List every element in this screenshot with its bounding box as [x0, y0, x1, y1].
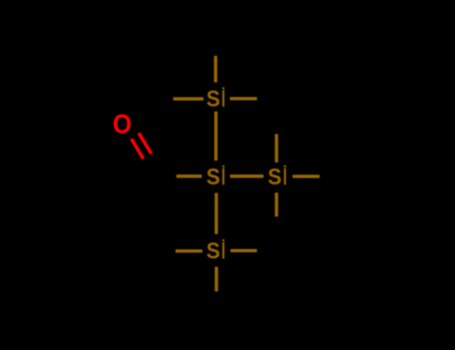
svg-text:S: S — [206, 238, 220, 264]
bond Si1 methyl right — [230, 97, 257, 100]
bond Si2-Si4 — [215, 193, 218, 234]
bond Si1-Si2 — [214, 112, 217, 161]
bond Si2-Si3 — [230, 175, 264, 178]
bond Si3 methyl up — [275, 134, 278, 163]
bond Si2 to acyl carbon — [176, 175, 201, 178]
atom Si1 (top trimethylsilyl) — [206, 86, 224, 112]
atom Si3 (right trimethylsilyl) — [268, 164, 286, 190]
bond Si3 methyl right — [293, 175, 320, 178]
bond C=O double bond line 2 — [139, 133, 152, 154]
atom Si4 (bottom trimethylsilyl) — [206, 238, 224, 264]
svg-text:S: S — [206, 86, 220, 112]
bond C=O double bond line 1 — [131, 139, 143, 159]
bond Si4 methyl down — [215, 267, 218, 292]
bond Si1 methyl left — [173, 97, 203, 100]
atom Si2 (central silicon) — [206, 164, 224, 190]
bond Si4 methyl right — [231, 249, 258, 252]
svg-text:O: O — [113, 109, 132, 139]
bond Si3 methyl down — [275, 193, 278, 217]
bond Si4 methyl left — [176, 249, 203, 252]
atom O (carbonyl oxygen) — [113, 109, 132, 139]
svg-text:S: S — [268, 164, 282, 190]
bond Si1 methyl up — [214, 56, 217, 83]
svg-text:S: S — [206, 164, 220, 190]
